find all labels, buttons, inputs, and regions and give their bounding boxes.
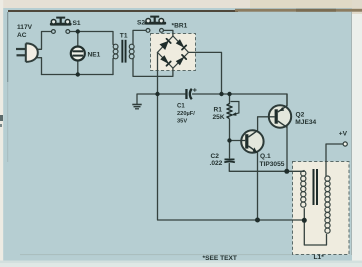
svg-text:Q2: Q2: [296, 112, 305, 119]
svg-text:117V: 117V: [17, 24, 33, 31]
svg-text:S1: S1: [73, 20, 81, 27]
svg-text:C2: C2: [211, 153, 220, 160]
svg-text:NE1: NE1: [88, 52, 101, 59]
svg-text:220µF/: 220µF/: [177, 111, 195, 117]
svg-text:*BR1: *BR1: [172, 23, 188, 30]
svg-text:T1: T1: [120, 33, 128, 40]
svg-text:35V: 35V: [177, 119, 187, 125]
svg-text:+V: +V: [339, 131, 348, 138]
svg-text:Q.1: Q.1: [260, 153, 271, 160]
svg-text:L1*: L1*: [314, 254, 325, 261]
svg-text:S2: S2: [137, 20, 145, 27]
svg-text:25K: 25K: [213, 114, 225, 121]
svg-text:AC: AC: [17, 32, 27, 39]
svg-text:*SEE TEXT: *SEE TEXT: [203, 255, 237, 262]
svg-text:TIP3055: TIP3055: [260, 161, 285, 168]
svg-text:.022: .022: [210, 160, 223, 167]
svg-text:R1: R1: [214, 107, 223, 114]
svg-text:MJE34: MJE34: [295, 119, 316, 126]
svg-text:C1: C1: [177, 104, 185, 110]
